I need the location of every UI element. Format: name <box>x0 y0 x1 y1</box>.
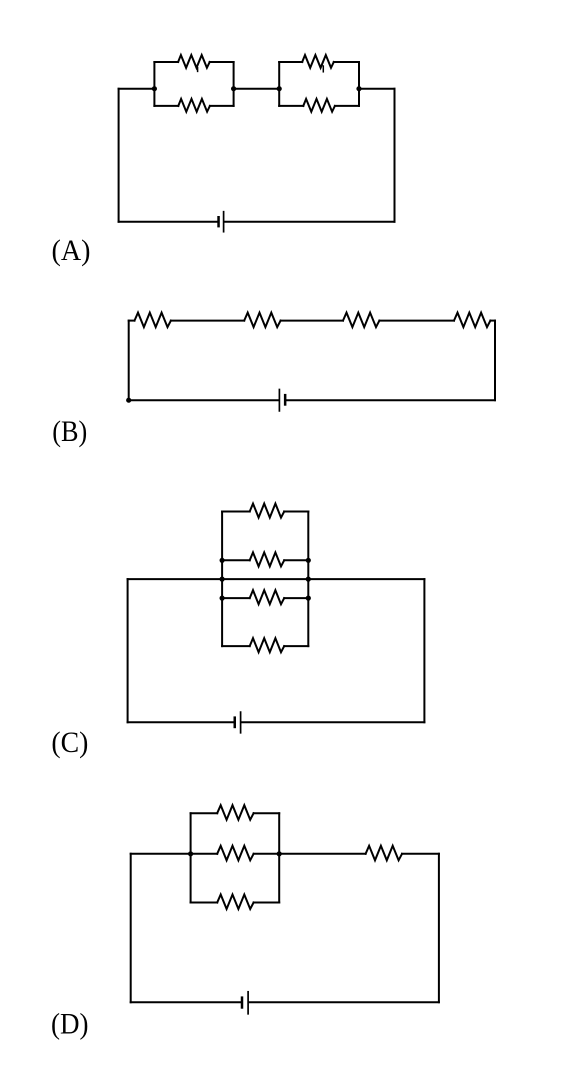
junction node C5 <box>220 596 225 601</box>
wire B top segment 3 <box>281 320 343 322</box>
wire D main left segment <box>131 853 218 855</box>
resistor R11 <box>250 590 285 604</box>
wire A middle segment between parallel pairs <box>234 88 280 90</box>
wire C branch4 right lead <box>284 645 308 647</box>
wire D main middle segment <box>254 853 366 855</box>
wire A box2 right rail <box>358 62 360 106</box>
resistor R6 <box>244 313 280 328</box>
wire A main left segment <box>119 88 155 90</box>
wire B bottom right segment <box>287 399 495 401</box>
resistor R13 <box>217 805 253 820</box>
wire A box2 bottom branch left lead <box>279 105 303 107</box>
resistor R10 <box>250 552 285 566</box>
wire D top branch left lead <box>191 812 218 814</box>
wire B right vertical <box>494 321 496 401</box>
wire D top branch right lead <box>254 812 280 814</box>
wire C bottom right segment <box>242 721 425 723</box>
svg-text:(B): (B) <box>52 415 87 448</box>
wire C branch1 right lead <box>284 511 308 513</box>
wire D bottom left segment <box>131 1001 241 1003</box>
wire C branch2 left lead <box>222 559 250 561</box>
wire A box1 bottom branch left lead <box>154 105 178 107</box>
resistor R1 <box>178 55 210 68</box>
battery V1 <box>217 212 223 232</box>
wire B top segment 5 <box>490 320 495 322</box>
junction node A4 <box>356 86 361 91</box>
wire D bottom right segment <box>249 1001 439 1003</box>
battery V3 <box>234 712 241 733</box>
wire A bottom left segment <box>119 221 218 223</box>
resistor R12 <box>250 638 285 652</box>
wire D left rail <box>190 813 192 902</box>
wire D left vertical <box>130 854 132 1002</box>
battery V2 <box>279 390 286 411</box>
wire B left vertical <box>128 321 130 401</box>
resistor R9 <box>250 504 285 518</box>
wire A box1 left rail <box>153 62 155 106</box>
wire B top segment 2 <box>171 320 244 322</box>
wire A main right segment <box>359 88 395 90</box>
svg-text:(C): (C) <box>51 726 88 759</box>
junction node D1 <box>188 851 193 856</box>
junction node C4 <box>306 577 311 582</box>
resistor R5 <box>135 313 171 328</box>
wire A box2 top branch right lead <box>334 61 359 63</box>
resistor R4 <box>303 99 335 112</box>
wire C main horizontal <box>128 578 425 580</box>
junction node A1 <box>152 86 157 91</box>
wire C right rail <box>307 512 309 647</box>
wire C branch3 left lead <box>222 597 250 599</box>
junction node C3 <box>220 577 225 582</box>
wire B top segment 1 <box>129 320 135 322</box>
wire A box1 top branch left lead <box>154 61 178 63</box>
wire D main right segment <box>402 853 439 855</box>
resistor R8 <box>454 313 490 328</box>
junction node D2 <box>277 851 282 856</box>
resistor R15 <box>217 895 253 910</box>
wire A box1 right rail <box>233 62 235 106</box>
resistor R16 <box>366 846 402 861</box>
junction node A2 <box>231 86 236 91</box>
artifact tick under R3 <box>322 66 324 72</box>
wire D right rail <box>278 813 280 902</box>
wire A box1 top branch right lead <box>210 61 234 63</box>
wire B top segment 4 <box>379 320 454 322</box>
wire A bottom right segment <box>225 221 395 223</box>
wire A box2 top branch left lead <box>279 61 302 63</box>
wire D bottom branch left lead <box>191 902 218 904</box>
junction node C6 <box>306 596 311 601</box>
wire D bottom branch right lead <box>254 902 280 904</box>
wire C bottom left segment <box>128 721 234 723</box>
junction node C2 <box>306 558 311 563</box>
resistor R2 <box>178 99 210 112</box>
svg-text:(D): (D) <box>51 1007 89 1040</box>
wire A right vertical <box>394 89 396 222</box>
wire B bottom left segment <box>129 399 279 401</box>
wire C branch2 right lead <box>284 559 308 561</box>
resistor R7 <box>343 313 379 328</box>
wire C left rail <box>221 512 223 647</box>
wire C branch3 right lead <box>284 597 308 599</box>
junction node B1 <box>126 398 131 403</box>
wire D right vertical <box>438 854 440 1002</box>
junction node C1 <box>220 558 225 563</box>
wire C right vertical <box>423 579 425 722</box>
wire C branch1 left lead <box>222 511 250 513</box>
wire A box2 left rail <box>278 62 280 106</box>
wire A left vertical <box>118 89 120 222</box>
artifact tick under R1 <box>197 68 199 72</box>
wire C branch4 left lead <box>222 645 250 647</box>
wire C left vertical <box>127 579 129 722</box>
battery V4 <box>241 992 248 1014</box>
svg-text:(A): (A) <box>52 234 91 267</box>
junction node A3 <box>277 86 282 91</box>
resistor R3 <box>302 55 334 68</box>
resistor R14 <box>217 846 253 861</box>
wire A box1 bottom branch right lead <box>210 105 234 107</box>
wire A box2 bottom branch right lead <box>335 105 359 107</box>
